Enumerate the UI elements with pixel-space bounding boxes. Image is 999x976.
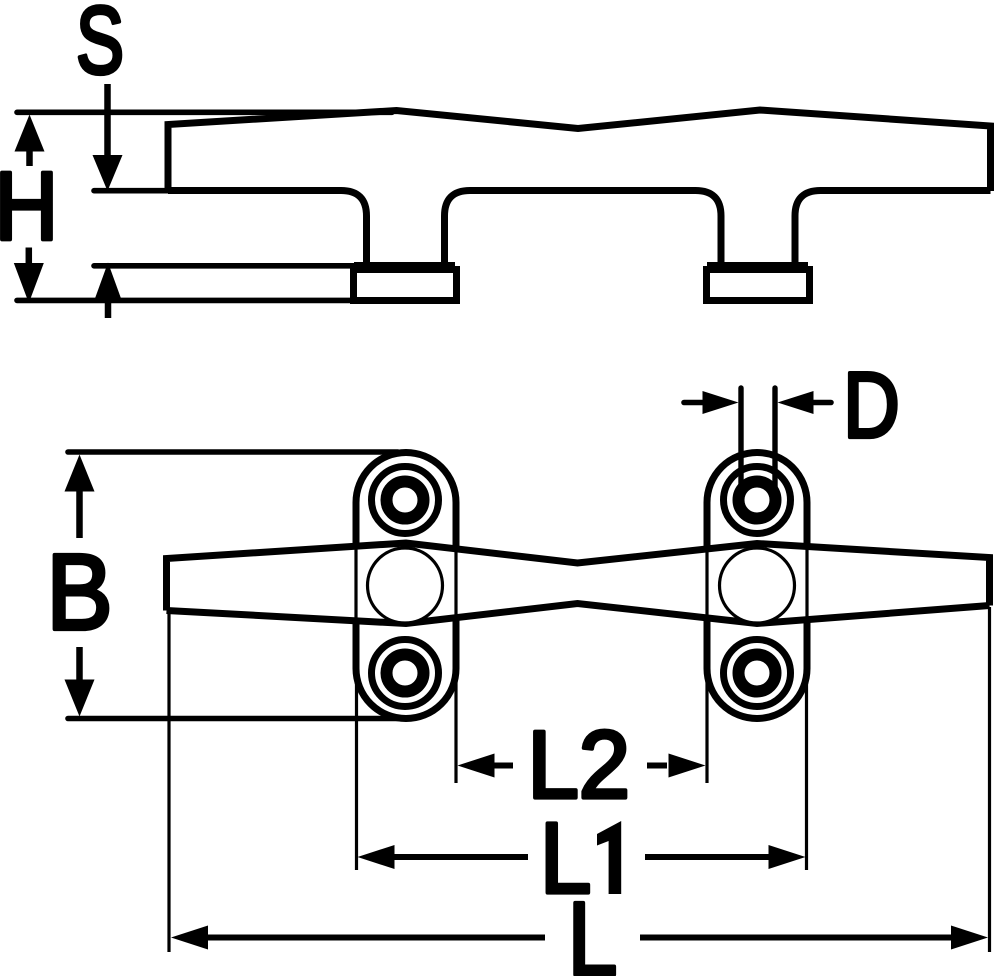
svg-text:B: B [46,531,112,651]
svg-text:H: H [0,152,58,261]
svg-text:L: L [568,882,618,976]
svg-text:S: S [76,0,124,93]
svg-text:L2: L2 [528,711,630,818]
svg-text:D: D [843,354,899,458]
